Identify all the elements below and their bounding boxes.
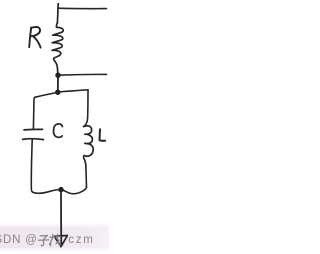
capacitor C top plate [24, 128, 43, 131]
svg-text:CSDN @: CSDN @ [0, 234, 38, 246]
wire: right branch upper (corner to inductor) [84, 90, 88, 127]
wire: tank top edge left [35, 92, 58, 97]
wire: tank bottom edge [35, 187, 87, 193]
watermark glyph 子 [39, 236, 49, 246]
wire: tank top edge right [58, 90, 88, 92]
wire: output lead down through arrowhead [60, 190, 62, 245]
watermark strip background [0, 227, 109, 249]
resistor R (hand-drawn squiggle) [52, 23, 63, 73]
capacitor C bottom plate [23, 138, 44, 141]
svg-text:czm: czm [68, 234, 94, 246]
wire: middle horizontal to right edge [58, 73, 107, 76]
wire: dot1 to dot2 [57, 75, 59, 92]
wire: top input stub [56, 4, 59, 23]
label C [53, 124, 62, 137]
wire: top horizontal to right edge [58, 7, 107, 9]
node: junction dot 3 (bottom of tank) [58, 187, 63, 192]
wire: left branch lower (capacitor to bottom corner) [31, 140, 34, 193]
arrowhead (output, open triangle) [54, 236, 67, 247]
node: junction dot 1 [55, 73, 60, 78]
wire: left branch upper (corner to capacitor) [33, 97, 35, 129]
inductor L (hand-drawn loops) [84, 126, 94, 167]
node: junction dot 2 (top of tank) [55, 90, 60, 95]
label R [29, 27, 40, 48]
label L [100, 129, 106, 140]
wire: right branch lower (inductor to bottom corner) [85, 167, 88, 187]
watermark glyph 花 (overlaps arrowhead) [49, 234, 60, 246]
